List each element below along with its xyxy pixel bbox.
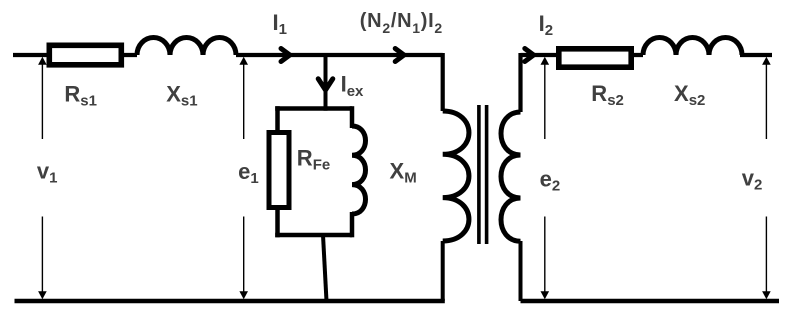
voltage arrow v2 (double headed) (762, 57, 771, 299)
ground rail right (bottom return) (521, 299, 780, 303)
wire: shunt box top line (275, 106, 352, 111)
inductor XM (352, 126, 366, 214)
wire: shunt box left stub lower (275, 206, 280, 237)
current arrow I2 chevron (525, 49, 534, 62)
current arrow Iex chevron (318, 79, 333, 90)
wire: Iex vertical drop from top wire to shunt box (324, 55, 328, 111)
transformer T1 core lines (479, 105, 487, 244)
transformer T1 primary leg lower (441, 241, 445, 301)
voltage arrow e1 (double headed) (239, 57, 248, 299)
current arrow I1 chevron (281, 49, 290, 62)
resistor RFe (269, 133, 289, 208)
wire: shunt box bottom line (275, 233, 352, 238)
inductor Xs1 (137, 38, 236, 56)
wire: shunt box right stub upper (350, 106, 355, 128)
transformer T1 secondary leg lower (519, 241, 523, 301)
wire: shunt box left stub upper (275, 106, 280, 134)
wire: shunt branch drop to bottom rail (323, 235, 327, 301)
transformer T1 secondary winding (501, 112, 521, 241)
inductor Xs2 (643, 38, 742, 56)
wire: secondary top from transformer corner to resistor and to right end (521, 53, 773, 112)
current arrow (N2/N1)I2 chevron (395, 49, 404, 62)
voltage arrow v1 (double headed) (38, 57, 47, 299)
ground rail left (bottom return) (15, 299, 445, 303)
voltage arrow e2 (double headed) (541, 57, 550, 299)
wire: shunt box right stub lower (350, 212, 355, 237)
transformer T1 primary winding (443, 111, 469, 241)
resistor Rs1 (49, 45, 121, 65)
wire: primary top feed from left edge to transformer, with corner down (13, 53, 443, 111)
resistor Rs2 (559, 49, 631, 67)
